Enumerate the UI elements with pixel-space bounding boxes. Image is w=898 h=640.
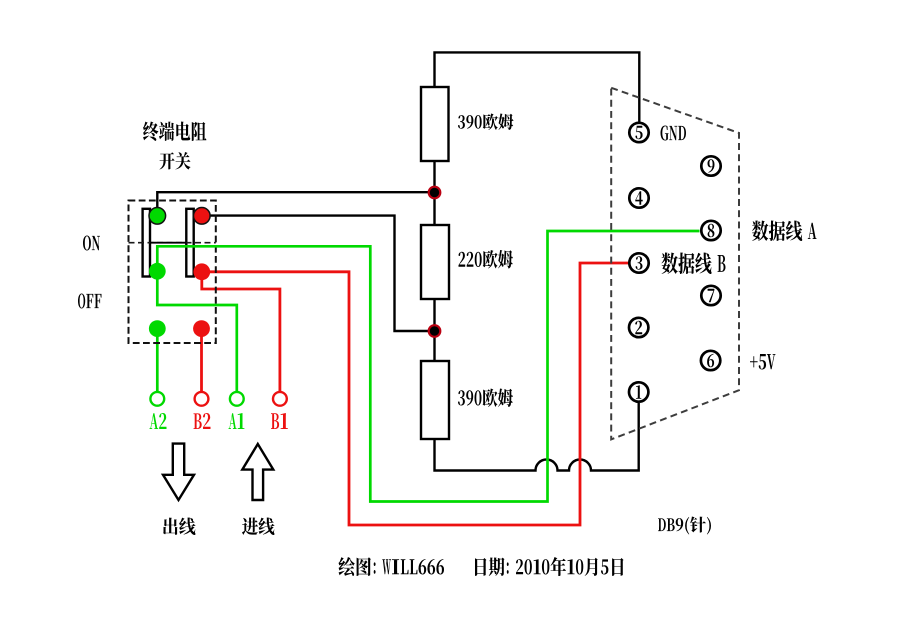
contact dot A mid (green) <box>149 263 166 280</box>
label B1 <box>271 413 288 429</box>
wire node N1 to switch pole A top contact <box>157 192 434 212</box>
pin 1 <box>629 382 648 401</box>
arrow outgoing (down) <box>163 444 194 500</box>
terminal A2 (open circle) <box>150 392 164 406</box>
contact dot B low (red) <box>193 320 210 337</box>
label ON <box>83 236 100 251</box>
resistor R3 <box>421 361 449 439</box>
label 开关 <box>160 152 191 170</box>
junction node N2 <box>429 325 441 337</box>
wire top net: R1 top to DB9 pin 5 <box>435 52 640 122</box>
pin 5 <box>629 123 648 142</box>
wire switch A lower contact to terminal A2 (green) <box>156 329 159 392</box>
label 数据线 A <box>752 221 817 242</box>
resistor R1 <box>421 87 449 161</box>
junction node N1 <box>429 187 441 199</box>
DB9 connector outline (dashed trapezoid) <box>611 88 739 440</box>
wire switch B lower contact to terminal B2 (red) <box>200 329 203 392</box>
value label 390欧姆 (R1) <box>458 114 514 131</box>
wire R3 bottom to DB9 pin 1 with two crossover hops <box>435 403 639 471</box>
pin 8 <box>701 221 720 240</box>
wire data line A: switch A contact to DB9 pin 8 (green) <box>157 231 699 502</box>
label 出线 <box>163 518 196 536</box>
value label 390欧姆 (R3) <box>458 389 513 408</box>
label DB9(针) <box>658 517 711 535</box>
contact dot A top (green) <box>149 208 166 225</box>
pin 2 <box>629 318 648 337</box>
switch pole B slider <box>186 209 193 277</box>
terminal B2 (open circle) <box>195 392 209 406</box>
pin 7 <box>701 286 720 305</box>
switch coupling bar <box>150 242 186 244</box>
switch S1 enclosure (dashed box) <box>129 201 216 344</box>
label 进线 <box>242 518 275 536</box>
terminal A1 (open circle) <box>230 392 244 406</box>
contact dot A low (green) <box>149 320 166 337</box>
label A1 <box>229 413 245 429</box>
label OFF <box>78 294 102 309</box>
label 终端电阻 <box>143 122 207 142</box>
terminal B1 (open circle) <box>273 392 287 406</box>
contact dot B top (red) <box>194 208 211 225</box>
pin 3 <box>629 253 648 272</box>
pin 4 <box>629 188 648 207</box>
wire switch pole B top contact to node N2 <box>202 216 431 331</box>
value label 220欧姆 (R2) <box>459 250 514 269</box>
wire switch B mid contact to terminal B1 (red) <box>202 272 280 392</box>
contact dot B mid (red) <box>193 263 210 280</box>
label B2 <box>194 413 211 429</box>
date 日期：2010年10月5日 <box>475 557 624 576</box>
arrow incoming (up) <box>242 444 273 500</box>
wire switch A mid contact to terminal A1 (green) <box>157 271 237 392</box>
wire data line B: switch B contact to DB9 pin 3 (red) <box>202 263 629 525</box>
label 数据线 B <box>662 253 726 275</box>
label GND <box>661 126 687 141</box>
switch ON/OFF divider (dashed) <box>129 242 216 244</box>
resistor R2 <box>421 225 449 299</box>
label +5V <box>750 354 776 370</box>
wire R1 bottom to R2 top through node N1 <box>433 161 435 225</box>
pin 6 <box>701 351 720 370</box>
switch pole A slider <box>143 209 150 277</box>
pin 9 <box>701 156 720 175</box>
wire R2 bottom to R3 top through node N2 <box>433 299 435 361</box>
title 绘图：WILL666 <box>339 557 445 576</box>
label A2 <box>150 413 167 429</box>
